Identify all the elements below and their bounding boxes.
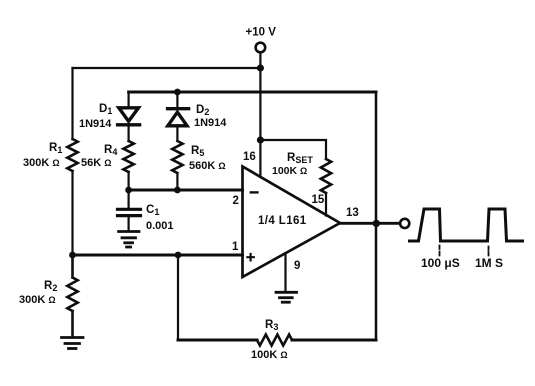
svg-text:100K Ω: 100K Ω bbox=[251, 349, 288, 361]
pin 9 wire bbox=[284, 253, 286, 291]
output terminal circle bbox=[400, 219, 409, 228]
op-amp minus sign bbox=[251, 191, 258, 193]
node R4 C1 junction bbox=[125, 187, 132, 194]
svg-text:16: 16 bbox=[243, 151, 256, 163]
svg-text:1N914: 1N914 bbox=[79, 118, 112, 130]
svg-text:300K Ω: 300K Ω bbox=[19, 294, 56, 306]
node R5 junction bbox=[174, 187, 181, 194]
resistor R5 bbox=[172, 141, 182, 173]
resistor R4 bbox=[123, 141, 133, 172]
svg-text:13: 13 bbox=[346, 207, 359, 219]
wire D2 cathode riser bbox=[176, 92, 178, 108]
power terminal +10 V bbox=[256, 43, 266, 53]
diode D1 bbox=[118, 108, 140, 141]
ground at pin 9 bbox=[276, 292, 297, 302]
resistor R3 bbox=[257, 335, 292, 346]
wire output pin 13 bbox=[340, 222, 400, 225]
svg-text:9: 9 bbox=[294, 260, 300, 272]
svg-text:100K Ω: 100K Ω bbox=[272, 165, 307, 177]
svg-text:R5: R5 bbox=[191, 145, 204, 158]
svg-text:R2: R2 bbox=[44, 280, 57, 293]
diode D2 bbox=[168, 109, 189, 141]
wire RSET top lead bbox=[260, 140, 326, 159]
wire non-inverting input rail pin 1 bbox=[73, 254, 243, 257]
ground under R2 bbox=[62, 338, 84, 349]
wire top rail from left column to +10V node bbox=[73, 67, 261, 69]
resistor RSET bbox=[321, 159, 331, 193]
op-amp U1 1/4 L161 bbox=[243, 167, 341, 278]
resistor R1 bbox=[67, 139, 77, 171]
svg-text:56K Ω: 56K Ω bbox=[81, 157, 111, 169]
wire pin 15 drop bbox=[325, 193, 327, 216]
svg-text:D2: D2 bbox=[196, 104, 209, 117]
node top rail junction bbox=[257, 64, 264, 71]
op-amp plus sign bbox=[247, 254, 253, 260]
svg-text:1: 1 bbox=[232, 241, 239, 253]
node D2 top bbox=[174, 89, 181, 96]
ground under C1 bbox=[119, 232, 139, 248]
svg-text:100 μS: 100 μS bbox=[421, 256, 460, 270]
node pin1 rail left junction bbox=[69, 252, 76, 259]
wire left column upper segment bbox=[71, 68, 73, 139]
svg-text:2: 2 bbox=[233, 195, 239, 207]
resistor R2 bbox=[67, 255, 77, 336]
svg-text:1/4 L161: 1/4 L161 bbox=[258, 215, 307, 227]
wire D1 anode riser bbox=[128, 92, 130, 107]
wire right feedback column bbox=[375, 92, 378, 340]
capacitor C1 bbox=[118, 190, 141, 230]
svg-text:15: 15 bbox=[312, 194, 325, 206]
wire bottom rail right bbox=[292, 339, 376, 342]
waveform dashed marker 2 bbox=[488, 247, 490, 256]
waveform dashed marker 1 bbox=[439, 246, 441, 256]
svg-text:0.001: 0.001 bbox=[146, 220, 174, 232]
svg-text:C1: C1 bbox=[146, 204, 159, 217]
waveform output pulses bbox=[410, 209, 523, 241]
svg-text:D1: D1 bbox=[99, 103, 112, 116]
wire R5 bottom bbox=[176, 173, 178, 190]
svg-text:1M S: 1M S bbox=[475, 256, 503, 270]
wire inverting input rail pin 2 bbox=[129, 189, 243, 192]
svg-text:R1: R1 bbox=[49, 142, 62, 155]
svg-text:+10 V: +10 V bbox=[246, 27, 277, 39]
svg-text:RSET: RSET bbox=[287, 152, 313, 165]
node output junction bbox=[373, 220, 380, 227]
wire R4 bottom bbox=[128, 172, 130, 190]
svg-text:1N914: 1N914 bbox=[194, 117, 227, 129]
wire +10V drop bbox=[259, 53, 261, 141]
svg-text:R4: R4 bbox=[104, 144, 117, 157]
wire diode feedback rail bbox=[129, 91, 376, 94]
wire bottom rail left bbox=[178, 339, 257, 342]
node R3 branch junction bbox=[175, 252, 182, 259]
svg-text:R3: R3 bbox=[265, 319, 278, 332]
svg-text:560K Ω: 560K Ω bbox=[189, 160, 226, 172]
wire left column mid segment bbox=[71, 171, 73, 255]
node RSET top junction bbox=[257, 136, 264, 143]
wire R3 left drop bbox=[177, 255, 179, 340]
wire pin 16 drop bbox=[259, 140, 261, 177]
svg-text:300K Ω: 300K Ω bbox=[23, 157, 60, 169]
